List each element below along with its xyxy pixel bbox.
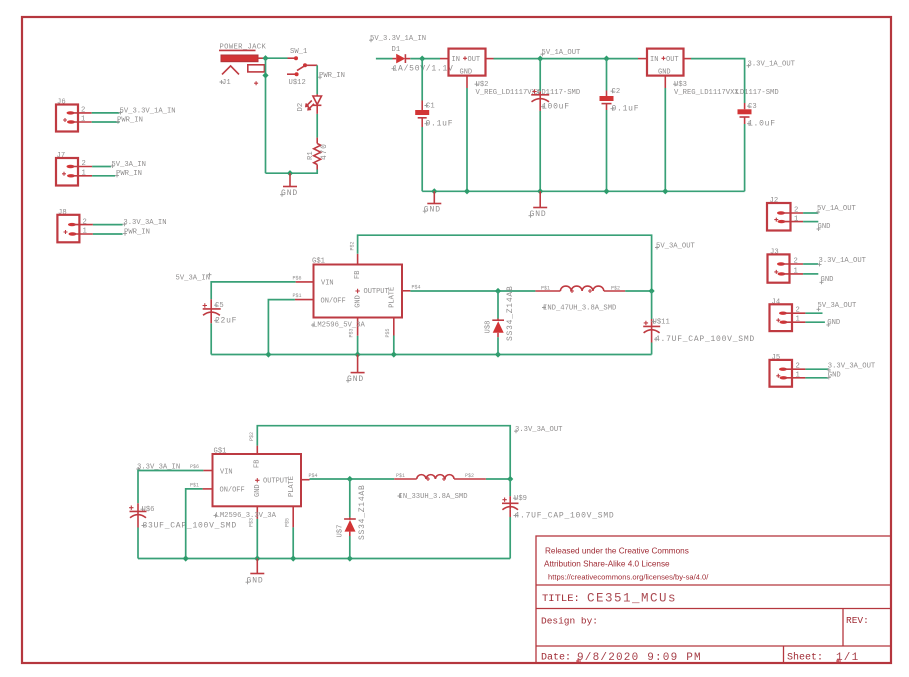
- svg-text:OUTPUT: OUTPUT: [263, 477, 288, 485]
- svg-text:1: 1: [83, 228, 87, 236]
- svg-text:Sheet:: Sheet:: [787, 652, 823, 664]
- svg-text:PWR_IN: PWR_IN: [319, 72, 345, 80]
- bottom rail (top section): [422, 190, 744, 192]
- diode U$7 SS34: [336, 479, 367, 559]
- capacitor C1 0.1uF: [415, 101, 453, 129]
- svg-text:GND: GND: [354, 295, 362, 308]
- wire module gnd: [357, 336, 359, 355]
- capacitor C3 1.0uF: [738, 103, 776, 129]
- wire input to D1: [376, 58, 393, 60]
- node plate rail: [391, 351, 397, 357]
- svg-text:4.7UF_CAP_100V_SMD: 4.7UF_CAP_100V_SMD: [515, 511, 615, 520]
- wire U$3 out: [691, 59, 745, 103]
- wire module plate: [393, 336, 395, 355]
- svg-text:3.3V_1A_OUT: 3.3V_1A_OUT: [748, 61, 796, 69]
- svg-text:IN: IN: [452, 56, 460, 64]
- svg-text:GND: GND: [658, 69, 671, 77]
- capacitor U$9 4.7UF_CAP_100V_SMD: [502, 479, 614, 559]
- svg-text:U$6: U$6: [142, 506, 155, 514]
- ground jack: [280, 173, 298, 198]
- switch U$12 SW_1: [287, 48, 317, 87]
- wire C3 to rail: [744, 124, 746, 191]
- node gnd rail (bottom): [254, 555, 260, 561]
- svg-text:GND: GND: [347, 375, 364, 384]
- wire jack vertical: [265, 58, 267, 173]
- svg-text:V_REG_LD1117VXX: V_REG_LD1117VXX: [476, 89, 541, 97]
- ground (module): [346, 355, 365, 385]
- svg-text:OUT: OUT: [666, 56, 679, 64]
- svg-text:2: 2: [82, 160, 86, 168]
- svg-text:ON/OFF: ON/OFF: [220, 487, 245, 495]
- node cap U$9 top: [507, 476, 513, 482]
- svg-text:LD1117-SMD: LD1117-SMD: [537, 89, 580, 97]
- svg-text:3.3V_3A_OUT: 3.3V_3A_OUT: [828, 363, 876, 371]
- svg-text:1: 1: [794, 267, 798, 275]
- wire J5 pin2: [805, 368, 828, 370]
- svg-text:Attribution Share-Alike 4.0 Li: Attribution Share-Alike 4.0 License: [544, 560, 670, 569]
- svg-text:REV:: REV:: [846, 615, 869, 626]
- svg-text:J1: J1: [222, 79, 231, 87]
- wire module plate (bottom): [292, 527, 294, 558]
- svg-text:TITLE:: TITLE:: [542, 593, 580, 605]
- svg-text:R1: R1: [307, 151, 315, 160]
- mid bottom rail: [211, 354, 651, 356]
- svg-text:LM2596_3.3V_3A: LM2596_3.3V_3A: [216, 512, 277, 520]
- wire J4 pin1: [805, 321, 825, 323]
- wire J3 pin1: [803, 273, 818, 275]
- svg-text:ON/OFF: ON/OFF: [321, 297, 346, 305]
- svg-text:GND: GND: [828, 372, 841, 380]
- node U$2 gnd: [464, 188, 470, 194]
- svg-text:U$7: U$7: [336, 525, 344, 538]
- node C1 top: [419, 56, 425, 62]
- diode D1 1A/50V/1.1V: [392, 46, 454, 74]
- svg-text:PWR_IN: PWR_IN: [117, 117, 143, 125]
- node C2 bottom: [603, 188, 609, 194]
- svg-text:U$8: U$8: [485, 321, 493, 334]
- svg-text:FB: FB: [354, 271, 362, 279]
- svg-text:5V_1A_OUT: 5V_1A_OUT: [817, 205, 857, 213]
- node diode top (bottom): [347, 476, 353, 482]
- svg-text:PLATE: PLATE: [288, 476, 296, 497]
- svg-text:GND: GND: [247, 577, 264, 586]
- svg-text:Design by:: Design by:: [541, 616, 598, 627]
- svg-text:VIN: VIN: [321, 280, 334, 288]
- ground (rail mid): [529, 191, 548, 219]
- connector J5: [770, 354, 806, 387]
- svg-text:V_REG_LD1117VXX: V_REG_LD1117VXX: [674, 89, 739, 97]
- svg-text:0.1uF: 0.1uF: [426, 120, 454, 129]
- capacitor U$11 4.7UF_CAP_100V_SMD: [643, 291, 755, 355]
- connector J6: [56, 99, 92, 132]
- wire ON/OFF riser (bottom): [186, 489, 203, 559]
- node gnd rail: [355, 351, 361, 357]
- svg-text:5V_1A_OUT: 5V_1A_OUT: [542, 49, 582, 57]
- svg-text:GND: GND: [254, 484, 262, 497]
- svg-text:33UF_CAP_100V_SMD: 33UF_CAP_100V_SMD: [143, 521, 237, 530]
- license text: [544, 547, 709, 582]
- wire LED to R1: [316, 114, 318, 138]
- svg-text:5V_3A_OUT: 5V_3A_OUT: [818, 302, 858, 310]
- svg-text:GND: GND: [818, 223, 831, 231]
- svg-text:1: 1: [794, 215, 798, 223]
- svg-text:9/8/2020 9:09 PM: 9/8/2020 9:09 PM: [577, 652, 702, 664]
- svg-text:GND: GND: [424, 206, 441, 215]
- node C4 top: [537, 56, 543, 62]
- svg-text:U$12: U$12: [289, 79, 306, 87]
- connector J3: [768, 248, 804, 282]
- svg-text:D1: D1: [392, 46, 401, 54]
- svg-text:5V_3A_OUT: 5V_3A_OUT: [656, 242, 696, 250]
- wire C4 to rail: [539, 111, 541, 191]
- wire J2 pin1: [803, 221, 818, 223]
- wire C2 to rail: [606, 110, 608, 191]
- wire J7 pin2: [92, 166, 111, 168]
- svg-text:P$1: P$1: [541, 285, 550, 291]
- LED D2: [297, 94, 322, 114]
- wire out to inductor: [410, 290, 535, 292]
- node plate rail (bottom): [290, 555, 296, 561]
- capacitor U$6 33UF_CAP_100V_SMD: [129, 503, 237, 530]
- buck module G$1 LM2596_3.3V_3A: [190, 432, 318, 527]
- node cap U$11 top: [649, 288, 655, 294]
- wire U$2 gnd: [466, 88, 468, 191]
- svg-text:P$5: P$5: [284, 518, 290, 527]
- ground (rail left): [423, 191, 442, 214]
- svg-text:P$1: P$1: [293, 293, 302, 299]
- svg-text:2: 2: [794, 207, 798, 215]
- svg-text:5V_3A_IN: 5V_3A_IN: [111, 161, 146, 169]
- svg-text:1: 1: [796, 316, 800, 324]
- wire J4 pin2: [805, 312, 822, 314]
- svg-text:2: 2: [796, 307, 800, 315]
- svg-text:U$9: U$9: [514, 495, 527, 503]
- node diode bottom (bottom): [347, 555, 353, 561]
- svg-text:5V_3.3V_1A_IN: 5V_3.3V_1A_IN: [120, 107, 176, 115]
- node jack pin: [262, 72, 268, 78]
- wire C1 branch: [421, 59, 423, 101]
- svg-text:P$4: P$4: [412, 284, 421, 290]
- wire FB up (bottom): [257, 426, 510, 479]
- wire J6 pin2: [92, 112, 120, 114]
- svg-text:Released under the Creative Co: Released under the Creative Commons: [545, 547, 689, 556]
- wire ON/OFF riser: [268, 300, 295, 355]
- wire jack to switch: [266, 57, 288, 59]
- wire U$3 gnd: [664, 88, 666, 191]
- resistor R1 470: [307, 138, 329, 170]
- regulator U$2: [440, 49, 580, 97]
- svg-text:U$11: U$11: [653, 318, 670, 326]
- svg-text:P$6: P$6: [293, 275, 302, 281]
- connector J7: [56, 152, 92, 186]
- wire U$6 to rail: [137, 528, 139, 559]
- capacitor C2 0.1uF: [600, 88, 640, 114]
- svg-text:P$6: P$6: [190, 464, 199, 470]
- node jack top: [262, 55, 268, 61]
- svg-text:IND_47UH_3.8A_SMD: IND_47UH_3.8A_SMD: [543, 304, 616, 312]
- svg-text:P$5: P$5: [385, 328, 391, 337]
- svg-text:P$1: P$1: [396, 473, 405, 479]
- svg-text:100uF: 100uF: [542, 103, 570, 112]
- svg-text:GND: GND: [281, 189, 298, 198]
- svg-text:P$2: P$2: [249, 432, 255, 441]
- svg-text:IN_33UH_3.8A_SMD: IN_33UH_3.8A_SMD: [399, 493, 468, 501]
- svg-text:SS34_Z14AB: SS34_Z14AB: [506, 285, 515, 341]
- wire J5 pin1: [805, 377, 828, 379]
- svg-text:P$3: P$3: [349, 328, 355, 337]
- wire C2 branch: [606, 59, 608, 91]
- wire jack bottom rail: [266, 170, 318, 174]
- capacitor C5 22uF: [203, 299, 238, 325]
- svg-text:PWR_IN: PWR_IN: [124, 228, 150, 236]
- svg-text:VIN: VIN: [220, 468, 233, 476]
- wire J2 pin2: [803, 212, 818, 214]
- svg-text:U$3: U$3: [674, 81, 687, 89]
- node U$3 gnd: [662, 188, 668, 194]
- wire J6 pin1: [92, 121, 120, 123]
- ground (bottom module): [246, 559, 265, 586]
- svg-text:PLATE: PLATE: [389, 287, 397, 308]
- svg-text:D2: D2: [297, 103, 305, 112]
- wire J8 pin1: [93, 233, 123, 235]
- regulator U$3: [638, 49, 779, 97]
- wire inductor to corner (bottom): [486, 478, 510, 480]
- svg-text:3.3V_3A_IN: 3.3V_3A_IN: [123, 219, 166, 227]
- node gnd rail 1: [431, 188, 437, 194]
- wire switch to LED: [316, 65, 318, 94]
- wire VIN feed: [211, 282, 296, 299]
- wire U$2 out: [494, 58, 639, 60]
- inductor IN_33UH_3.8A_SMD: [394, 473, 486, 501]
- power jack J1: [219, 44, 266, 88]
- node diode top: [495, 288, 501, 294]
- svg-text:3.3V_3A_OUT: 3.3V_3A_OUT: [515, 426, 563, 434]
- node onoff rail: [265, 351, 271, 357]
- wire inductor to corner: [625, 290, 651, 292]
- svg-text:FB: FB: [254, 460, 262, 468]
- svg-text:CE351_MCUs: CE351_MCUs: [587, 592, 677, 606]
- node diode bottom: [495, 351, 501, 357]
- svg-text:2: 2: [81, 107, 85, 115]
- svg-text:P$2: P$2: [611, 285, 620, 291]
- capacitor C4 100uF: [531, 89, 570, 111]
- svg-text:3.3V_1A_OUT: 3.3V_1A_OUT: [819, 257, 867, 265]
- svg-text:5V_3A_IN: 5V_3A_IN: [176, 274, 211, 282]
- svg-text:470: 470: [320, 143, 329, 160]
- svg-text:0.1uF: 0.1uF: [612, 105, 640, 114]
- connector J8: [57, 209, 93, 243]
- bottom rail: [138, 558, 510, 560]
- svg-text:LM2596_5V_3A: LM2596_5V_3A: [313, 321, 365, 329]
- svg-text:C1: C1: [426, 103, 435, 111]
- svg-text:1.0uF: 1.0uF: [748, 120, 776, 129]
- wire J3 pin2: [803, 263, 818, 265]
- svg-text:GND: GND: [821, 276, 834, 284]
- wire J8 pin2: [93, 224, 123, 226]
- svg-text:GND: GND: [530, 210, 547, 219]
- svg-text:GND: GND: [460, 69, 473, 77]
- wire C1 to rail: [421, 127, 423, 191]
- svg-text:P$1: P$1: [190, 482, 199, 488]
- wire module gnd (bottom): [256, 519, 258, 559]
- svg-text:2: 2: [83, 218, 87, 226]
- wire J7 pin1: [92, 175, 115, 177]
- svg-text:OUT: OUT: [468, 56, 481, 64]
- svg-text:LD1117-SMD: LD1117-SMD: [736, 89, 779, 97]
- wire out to inductor (bottom): [310, 478, 395, 480]
- wire D1 to U$2: [410, 58, 440, 60]
- svg-text:IN: IN: [650, 56, 658, 64]
- wire C4 branch: [539, 59, 541, 92]
- svg-text:1: 1: [796, 371, 800, 379]
- svg-text:SW_1: SW_1: [290, 48, 307, 56]
- svg-text:1: 1: [82, 169, 86, 177]
- svg-text:22uF: 22uF: [215, 317, 237, 326]
- wire C5 to rail: [210, 323, 212, 354]
- node C2 top: [603, 56, 609, 62]
- node C4 bottom: [537, 188, 543, 194]
- svg-text:GND: GND: [827, 319, 840, 327]
- svg-text:U$2: U$2: [476, 81, 489, 89]
- svg-text:2: 2: [796, 363, 800, 371]
- svg-text:4.7UF_CAP_100V_SMD: 4.7UF_CAP_100V_SMD: [655, 335, 755, 344]
- svg-text:2: 2: [794, 258, 798, 266]
- connector J4: [770, 298, 806, 331]
- svg-text:PWR_IN: PWR_IN: [116, 170, 142, 178]
- svg-text:1: 1: [81, 116, 85, 124]
- diode U$8 SS34: [485, 285, 516, 354]
- wire VIN feed (bottom): [138, 471, 203, 504]
- svg-text:https://creativecommons.org/li: https://creativecommons.org/licenses/by-…: [548, 573, 709, 582]
- svg-text:OUTPUT: OUTPUT: [364, 288, 389, 296]
- svg-text:1/1: 1/1: [836, 652, 859, 664]
- buck module G$1 LM2596_5V_3A: [293, 241, 421, 337]
- title block: [536, 536, 891, 663]
- svg-text:SS34_Z14AB: SS34_Z14AB: [358, 484, 367, 540]
- svg-text:P$2: P$2: [465, 473, 474, 479]
- inductor IND_47UH_3.8A_SMD: [535, 285, 625, 312]
- wire FB up: [358, 235, 652, 291]
- connector J2: [767, 197, 803, 231]
- node onoff rail (bottom): [183, 555, 189, 561]
- svg-text:P$2: P$2: [349, 241, 355, 250]
- node GND jack: [287, 170, 293, 176]
- svg-text:Date:: Date:: [541, 653, 571, 664]
- svg-text:5V_3.3V_1A_IN: 5V_3.3V_1A_IN: [370, 35, 426, 43]
